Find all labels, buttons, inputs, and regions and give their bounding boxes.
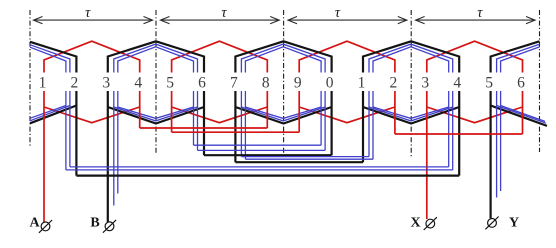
wire: black coil 11-14 bottom end connection: [363, 107, 459, 124]
wire: blue coil 7-10 bottom end connection: [241, 107, 325, 121]
svg-text:τ: τ: [335, 5, 341, 21]
terminal A (phase start, red): [29, 216, 52, 233]
svg-text:X: X: [410, 216, 420, 231]
wire: blue coil 7-10 top end connection: [241, 44, 325, 72]
svg-text:τ: τ: [221, 5, 227, 21]
wire: red jumper slot4-slot8: [140, 127, 268, 129]
pole pitch arrow tau 3: [288, 5, 407, 24]
wire: red coil 13-16 top end connection: [427, 41, 523, 72]
wire: black coil 3-6 top end connection: [108, 41, 204, 72]
svg-text:3: 3: [102, 75, 110, 92]
terminal B (phase start, black): [90, 216, 116, 233]
svg-text:τ: τ: [85, 5, 91, 21]
wire: red coil 13-16 bottom end connection: [427, 107, 523, 123]
wire: blue jumpers slot2-slot14: [66, 167, 453, 170]
wire: blue coil 3-6 bottom end connection: [114, 107, 198, 121]
wire: blue slot conductors (lower): [66, 91, 501, 206]
terminal Y (phase end, black): [485, 216, 519, 231]
wire: red coil 1-4 bottom end connection: [44, 107, 140, 123]
wire: blue coil 11-14 bottom end connection: [369, 107, 453, 121]
wire: black jumper slot2-slot14: [76, 175, 459, 177]
wire: black jumper slot6-slot10: [204, 154, 332, 156]
wire: black coil 15-2 top end connection (wraps at edges): [30, 41, 540, 72]
wire: red coil 9-12 bottom end connection: [299, 107, 395, 123]
svg-text:Y: Y: [509, 216, 519, 231]
svg-text:B: B: [90, 216, 99, 231]
wire: black coil 7-10 bottom end connection: [235, 107, 331, 124]
svg-text:5: 5: [166, 75, 174, 92]
svg-text:8: 8: [262, 75, 270, 92]
svg-text:1: 1: [358, 75, 366, 92]
wire: red jumper slot12-slot16: [395, 133, 523, 135]
svg-text:2: 2: [71, 75, 79, 92]
dash-dot pole boundary 4: [410, 10, 412, 158]
wire: blue coil 15-2 top end connection (wraps at edges): [30, 44, 540, 72]
svg-text:2: 2: [390, 75, 398, 92]
wire: blue jumpers slot7-slot11: [241, 157, 373, 160]
pole pitch arrow tau 2: [161, 5, 280, 24]
svg-text:0: 0: [326, 75, 334, 92]
svg-text:3: 3: [421, 75, 429, 92]
svg-text:6: 6: [198, 75, 206, 92]
slot numbers 1-16: [39, 75, 526, 92]
wire: black coil 3-6 bottom end connection: [108, 107, 204, 124]
wire: black coil 7-10 top end connection: [235, 41, 331, 72]
svg-text:6: 6: [517, 75, 525, 92]
wire: red coil 9-12 top end connection: [299, 41, 395, 72]
svg-text:1: 1: [39, 75, 47, 92]
svg-text:4: 4: [453, 75, 461, 92]
dash-dot pole boundary 2: [155, 10, 157, 153]
dash-dot pole boundary 5: [539, 10, 541, 152]
pole pitch arrow tau 1: [34, 5, 153, 24]
terminal X (phase end, red): [410, 216, 436, 231]
wire: blue coil 3-6 top end connection: [114, 44, 198, 72]
svg-text:4: 4: [134, 75, 142, 92]
svg-text:9: 9: [294, 75, 302, 92]
wire: red jumper slot5-slot9: [172, 131, 300, 133]
wire: black jumper slot7-slot11: [235, 161, 363, 163]
svg-text:τ: τ: [477, 5, 483, 21]
wire: red coil 5-8 bottom end connection: [172, 107, 268, 123]
wire: black slot conductors (lower): [76, 91, 490, 222]
wire: black coil 11-14 top end connection: [363, 41, 459, 72]
svg-text:A: A: [29, 216, 40, 231]
wire: blue coil 15-2 bottom end connection (wraps at edges): [30, 106, 546, 124]
wire: blue coil 11-14 top end connection: [369, 44, 453, 72]
wire: blue jumpers slot6-slot10: [194, 145, 326, 150]
svg-text:7: 7: [230, 75, 238, 92]
wire: red coil 1-4 top end connection: [44, 41, 140, 72]
dash-dot pole boundary 3: [283, 10, 285, 155]
svg-text:5: 5: [485, 75, 493, 92]
pole pitch arrow tau 4: [416, 5, 535, 24]
dash-dot pole boundary 1: [29, 10, 31, 146]
wire: red coil 5-8 top end connection: [172, 41, 268, 72]
wire: red slot conductors (lower): [44, 91, 523, 222]
wire: black coil 15-2 bottom end connection (wraps at edges): [30, 106, 547, 126]
